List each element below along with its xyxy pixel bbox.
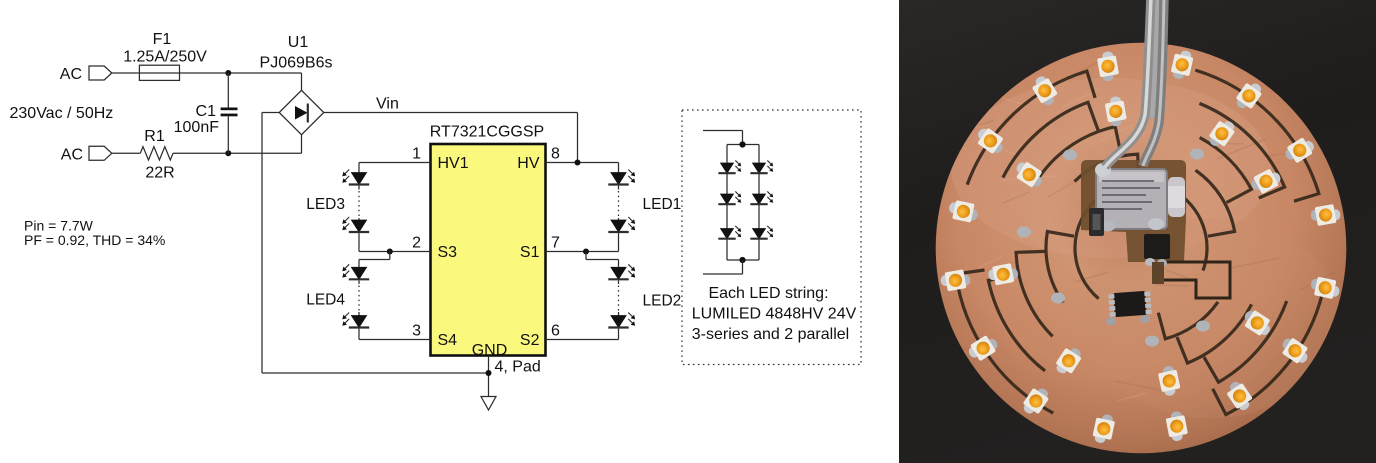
- LED 18: [1091, 412, 1116, 445]
- svg-text:S4: S4: [438, 332, 458, 349]
- LED 2: [1096, 50, 1120, 82]
- junction dot bottom: [225, 150, 231, 156]
- capacitor C1 100nF: [227, 73, 229, 108]
- svg-text:AC: AC: [60, 66, 82, 83]
- wire pin3: [359, 339, 431, 341]
- IC RT7321CGGSP: [431, 144, 546, 356]
- LED1 string: [611, 173, 626, 185]
- wire pin2: [359, 251, 431, 253]
- junction dot top: [225, 70, 231, 76]
- svg-text:230Vac / 50Hz: 230Vac / 50Hz: [10, 105, 114, 122]
- LED 8: [1206, 116, 1238, 151]
- LED 19: [1157, 365, 1182, 398]
- LED 3: [1170, 48, 1195, 81]
- LED string branch x=727: [726, 145, 728, 164]
- transistor Q: [1144, 234, 1170, 259]
- svg-text:AC: AC: [61, 147, 83, 164]
- LED 1: [1029, 73, 1060, 108]
- svg-text:S3: S3: [438, 244, 458, 261]
- svg-text:S1: S1: [520, 244, 540, 261]
- LED 24: [1309, 275, 1342, 300]
- svg-text:RT7321CGGSP: RT7321CGGSP: [430, 124, 544, 141]
- wire R1 to bridge bottom: [173, 152, 302, 154]
- svg-text:22R: 22R: [145, 165, 174, 182]
- svg-text:3-series and 2 parallel: 3-series and 2 parallel: [692, 326, 849, 343]
- svg-text:6: 6: [551, 323, 560, 340]
- svg-text:LUMILED 4848HV 24V: LUMILED 4848HV 24V: [692, 306, 857, 323]
- SOIC-8 IC: [1104, 291, 1152, 326]
- wire fuse to bridge top: [180, 72, 302, 74]
- LED 20: [1165, 410, 1189, 442]
- copper PCB disc: [936, 43, 1347, 454]
- svg-text:S2: S2: [520, 332, 540, 349]
- solder blobs: [1063, 150, 1077, 161]
- svg-text:LED1: LED1: [643, 196, 682, 213]
- svg-text:LED2: LED2: [643, 293, 682, 310]
- svg-text:7: 7: [551, 235, 560, 252]
- LED 5: [973, 125, 1008, 157]
- svg-text:Each LED string:: Each LED string:: [708, 285, 828, 302]
- LED string example wires: [703, 130, 743, 132]
- trace below transistor: [1152, 262, 1164, 284]
- LED 7: [1104, 95, 1128, 127]
- svg-text:1.25A/250V: 1.25A/250V: [123, 49, 207, 66]
- photo of LED PCB: [899, 0, 1376, 463]
- LED 22: [1240, 307, 1275, 339]
- film capacitor X2: [1095, 163, 1167, 232]
- supply wires: [1152, 0, 1157, 118]
- svg-text:4, Pad: 4, Pad: [495, 359, 541, 376]
- photo background: [899, 0, 1376, 463]
- LED 10: [947, 199, 980, 224]
- LED 15: [966, 332, 1001, 364]
- fuse F1 1.25A/250V: [139, 65, 179, 80]
- LED4 string: [351, 267, 366, 279]
- svg-text:U1: U1: [288, 34, 309, 51]
- wire pin8: [546, 162, 619, 164]
- junction dot pin2: [387, 249, 393, 255]
- LED 13: [939, 268, 971, 292]
- resistor 220: [1089, 208, 1104, 236]
- LED 9: [1282, 134, 1317, 166]
- svg-text:LED4: LED4: [306, 292, 345, 309]
- LED 12: [1309, 203, 1341, 227]
- LED 14: [987, 262, 1019, 286]
- LED 21: [1224, 379, 1256, 414]
- svg-text:3: 3: [412, 323, 421, 340]
- bridge rectifier U1 PJ069B6s: [279, 90, 324, 134]
- svg-text:Vin: Vin: [376, 96, 399, 113]
- wire step to LED4: [389, 252, 391, 260]
- svg-text:8: 8: [551, 146, 560, 163]
- PCB etched traces: [956, 70, 1323, 415]
- fuse component right of cap: [1168, 177, 1185, 217]
- svg-text:PF = 0.92, THD = 34%: PF = 0.92, THD = 34%: [24, 232, 165, 248]
- wire Vin: [324, 112, 578, 114]
- svg-text:PJ069B6s: PJ069B6s: [260, 55, 333, 72]
- LED string branch x=759: [758, 145, 760, 164]
- wire step to LED2: [585, 252, 587, 260]
- junction dot pin7: [583, 249, 589, 255]
- wire bridge left to ground rail: [262, 112, 279, 114]
- LED3 string: [351, 173, 366, 185]
- dashed box: LED string description: [682, 110, 861, 365]
- junction dot Vin/pin8: [575, 160, 581, 166]
- svg-text:HV: HV: [517, 155, 540, 172]
- wire AC top to fuse: [112, 72, 140, 74]
- svg-text:R1: R1: [144, 128, 165, 145]
- resistor R1 22R: [140, 147, 173, 160]
- ground symbol: [481, 397, 496, 411]
- wire AC bottom to R1: [112, 152, 141, 154]
- center etched island: [1081, 160, 1186, 262]
- LED 11: [1249, 166, 1284, 197]
- svg-text:HV1: HV1: [438, 155, 469, 172]
- svg-text:C1: C1: [196, 103, 217, 120]
- svg-text:LED3: LED3: [306, 196, 345, 213]
- wire pin7: [546, 251, 619, 253]
- LED2 string: [611, 267, 626, 279]
- svg-text:2: 2: [412, 235, 421, 252]
- LED 6: [1012, 159, 1047, 191]
- LED 17: [1053, 343, 1085, 378]
- wire pin6: [546, 339, 619, 341]
- svg-text:GND: GND: [472, 342, 508, 359]
- LED 4: [1233, 78, 1265, 113]
- svg-text:100nF: 100nF: [174, 119, 220, 136]
- svg-text:1: 1: [412, 146, 421, 163]
- LED 16: [1020, 384, 1052, 419]
- LED 23: [1278, 335, 1313, 367]
- svg-text:F1: F1: [153, 31, 172, 48]
- wire pin1: [359, 162, 431, 164]
- junction dot GND: [486, 370, 492, 376]
- wire GND pad: [488, 356, 490, 397]
